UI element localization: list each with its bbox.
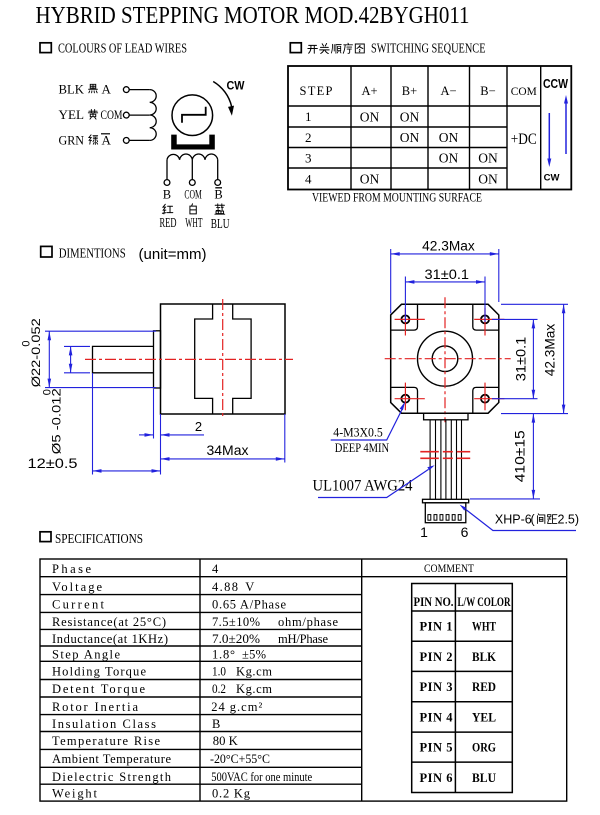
svg-text:PIN 6: PIN 6: [420, 771, 453, 785]
header COM: [511, 84, 537, 98]
connector housing XHP-6: [425, 503, 466, 523]
svg-text:COMMENT: COMMENT: [424, 561, 475, 575]
label B: [163, 188, 171, 202]
svg-text:SPECIFICATIONS: SPECIFICATIONS: [55, 532, 143, 547]
pin number 1: [420, 524, 428, 540]
svg-text:0.2: 0.2: [212, 682, 226, 696]
callout UL1007 AWG24 text: [313, 478, 413, 495]
svg-text:B−: B−: [480, 84, 495, 98]
dia5 dimension line: [69, 346, 73, 372]
stator bracket (thick U): [171, 135, 215, 150]
dim 2 label: [195, 419, 202, 434]
CW curved arrow: [213, 82, 234, 116]
svg-text:Resistance(at 25°C): Resistance(at 25°C): [52, 615, 166, 629]
svg-text:ON: ON: [360, 110, 380, 125]
mounting hole bottom-left: [401, 395, 409, 403]
svg-text:Kg.cm: Kg.cm: [236, 682, 272, 696]
section checkbox: dimentions: [41, 246, 52, 257]
boss width extension line: [153, 389, 155, 439]
svg-text:1: 1: [305, 109, 312, 124]
svg-text:PIN 1: PIN 1: [420, 620, 453, 634]
svg-text:WHT: WHT: [185, 215, 203, 230]
header A+: [361, 84, 377, 98]
svg-text:12±0.5: 12±0.5: [28, 456, 78, 471]
svg-text:CW: CW: [227, 79, 246, 93]
mounting hole bottom-right: [481, 395, 489, 403]
callout leader to connector: [460, 505, 576, 531]
svg-text:PIN NO.: PIN NO.: [414, 595, 454, 609]
header A-: [440, 84, 456, 98]
svg-text:Holding Torque: Holding Torque: [52, 664, 146, 678]
svg-text:7.0±20%: 7.0±20%: [212, 632, 260, 646]
svg-text:B: B: [163, 188, 171, 202]
wire A to coil: [129, 89, 150, 91]
winding A (vertical coil, 4 loops): [150, 90, 157, 141]
section checkbox: specifications: [40, 532, 51, 542]
wire COM-B down: [191, 160, 193, 180]
svg-text:A: A: [102, 132, 112, 147]
svg-text:-20°C+55°C: -20°C+55°C: [210, 752, 270, 766]
motor flange outline (chamfered square): [391, 304, 499, 413]
connector cap: [423, 499, 469, 503]
svg-text:Temperature Rise: Temperature Rise: [52, 734, 160, 748]
svg-text:CCW: CCW: [543, 77, 568, 91]
svg-text:CW: CW: [544, 173, 560, 184]
svg-text:Ø5 -0.012: Ø5 -0.012: [49, 388, 63, 454]
svg-text:ON: ON: [400, 130, 420, 145]
shaft length extension lines: [93, 373, 161, 475]
31 top dimension line: [405, 280, 485, 284]
svg-text:3: 3: [305, 151, 312, 166]
svg-text:PIN 2: PIN 2: [420, 650, 453, 664]
svg-text:Inductance(at 1KHz): Inductance(at 1KHz): [52, 632, 168, 646]
section title CJK: 开关顺序图: [308, 43, 364, 53]
42.3Max top dimension line: [391, 252, 499, 256]
svg-text:0.65 A/Phase: 0.65 A/Phase: [212, 598, 286, 612]
svg-text:24 g.cm²: 24 g.cm²: [211, 700, 262, 714]
svg-text:STEP: STEP: [300, 84, 333, 98]
svg-text:ORG: ORG: [472, 741, 496, 755]
step numbers: [305, 109, 312, 187]
svg-text:PIN 5: PIN 5: [420, 741, 453, 755]
svg-text:2.5): 2.5): [558, 513, 580, 527]
label 红: [162, 204, 172, 214]
rotor step symbol: [182, 107, 206, 123]
svg-text:ON: ON: [439, 130, 459, 145]
svg-text:0: 0: [21, 340, 33, 346]
svg-text:L/W COLOR: L/W COLOR: [458, 595, 512, 609]
callout XHP-6 text: [495, 513, 579, 527]
label GRN 绿 A-bar: [59, 132, 112, 147]
shaft bore circle: [432, 346, 458, 372]
winding B (horizontal coil, 4 loops): [167, 154, 218, 160]
42.3Max right label (rotated): [543, 323, 558, 376]
svg-text:ON: ON: [478, 172, 498, 187]
svg-text:YEL: YEL: [472, 710, 496, 724]
svg-text:0.2 Kg: 0.2 Kg: [212, 787, 251, 801]
svg-text:RED: RED: [160, 215, 177, 230]
svg-text:±5%: ±5%: [242, 647, 266, 661]
terminal B: [164, 180, 170, 186]
svg-text:mH/Phase: mH/Phase: [278, 632, 328, 646]
dia5 tolerance label: [41, 388, 63, 454]
dia22 dimension line: [48, 331, 52, 387]
terminal A-bar (GRN): [123, 138, 129, 144]
svg-text:BLU: BLU: [211, 216, 230, 231]
label COM (bottom): [184, 188, 202, 202]
svg-text:7.5±10%: 7.5±10%: [212, 615, 260, 629]
svg-text:COLOURS OF LEAD WIRES: COLOURS OF LEAD WIRES: [58, 41, 187, 56]
svg-text:1.0: 1.0: [212, 664, 226, 678]
corner pad bottom-left: [391, 387, 417, 413]
table grid: [288, 66, 571, 190]
svg-text:31±0.1: 31±0.1: [514, 337, 529, 382]
wire COM to coil: [129, 114, 150, 116]
callout DEEP 4MIN text: [335, 440, 390, 455]
svg-text:2: 2: [195, 419, 202, 434]
cable centerline ticks: [420, 452, 470, 459]
34Max extension line right: [284, 414, 286, 463]
31 right extension lines: [492, 319, 538, 398]
svg-text:Phase: Phase: [52, 562, 91, 576]
wire B down: [166, 160, 168, 180]
lead wire bundle: [430, 420, 461, 500]
svg-text:42.3Max: 42.3Max: [543, 323, 558, 376]
+DC label: [511, 131, 537, 148]
mounting hole top-left: [401, 315, 409, 323]
410 extension line bottom: [470, 498, 540, 500]
corner pad top-right: [473, 304, 499, 330]
spec table grid: [40, 559, 567, 801]
42.3Max top extension lines: [391, 249, 499, 313]
label 白: [190, 204, 196, 214]
rotor circle: [172, 95, 213, 136]
svg-text:ON: ON: [360, 172, 380, 187]
ON row2: [400, 130, 459, 145]
motor body outline (side view): [161, 304, 286, 414]
svg-text:Ø22-0.052: Ø22-0.052: [29, 318, 43, 387]
svg-text:ON: ON: [478, 151, 498, 166]
label WHT: [185, 215, 203, 230]
ON row3: [439, 151, 498, 166]
svg-text:VIEWED FROM MOUNTING SURFACE: VIEWED FROM MOUNTING SURFACE: [312, 191, 482, 205]
svg-text:BLU: BLU: [472, 771, 496, 785]
svg-text:6: 6: [461, 524, 469, 540]
wire exit flange: [424, 413, 468, 420]
section checkbox: colours of lead wires: [40, 43, 51, 53]
svg-text:0: 0: [41, 389, 53, 395]
callout 4-M3X0.5 text: [333, 425, 383, 440]
mounting hole top-right: [481, 315, 489, 323]
svg-text:500VAC for one minute: 500VAC for one minute: [211, 770, 312, 784]
svg-text:B: B: [212, 717, 220, 731]
label 蓝: [215, 204, 225, 214]
title: [36, 2, 470, 29]
wire B-bar down: [217, 160, 219, 180]
svg-text:Ambient Temperature: Ambient Temperature: [52, 752, 171, 766]
svg-text:4-M3X0.5: 4-M3X0.5: [333, 425, 383, 440]
svg-text:PIN 4: PIN 4: [420, 710, 454, 724]
CCW direction arrow (up): [564, 95, 568, 154]
svg-text:B+: B+: [402, 84, 417, 98]
dia5 extension lines: [64, 346, 90, 372]
terminal COM-B: [189, 180, 195, 186]
front view centerlines: [385, 297, 511, 422]
spec values column: [210, 562, 338, 801]
terminal B-bar: [215, 180, 221, 186]
svg-text:Kg.cm: Kg.cm: [236, 664, 272, 678]
svg-text:A−: A−: [440, 84, 456, 98]
svg-text:34Max: 34Max: [207, 443, 249, 458]
label B-bar: [214, 188, 222, 202]
svg-text:ON: ON: [400, 110, 420, 125]
section title: DIMENTIONS: [59, 246, 126, 261]
svg-text:DEEP 4MIN: DEEP 4MIN: [335, 440, 390, 455]
svg-text:4: 4: [212, 562, 219, 576]
svg-text:+DC: +DC: [511, 131, 537, 148]
side view inner profile: [195, 304, 251, 414]
svg-text:SWITCHING SEQUENCE: SWITCHING SEQUENCE: [371, 41, 486, 56]
svg-text:UL1007 AWG24: UL1007 AWG24: [313, 478, 413, 495]
wire A-bar to coil: [129, 139, 150, 141]
side view horizontal centerline: [85, 358, 293, 360]
31 top extension lines: [405, 277, 485, 323]
label YEL 黄 COM: [59, 107, 123, 122]
pin wire colors: [472, 620, 497, 785]
dia22 extension lines: [45, 331, 156, 387]
header B-: [480, 84, 495, 98]
svg-text:XHP-6: XHP-6: [495, 513, 532, 527]
caption: viewed from mounting surface: [312, 191, 482, 205]
shaft: [93, 346, 154, 372]
410+-15 dimension line: [532, 414, 536, 499]
ON row1: [360, 110, 420, 125]
section title: COLOURS OF LEAD WIRES: [58, 41, 187, 56]
42.3Max top label: [422, 239, 475, 254]
pin color table grid: [412, 584, 513, 793]
connector pin slots: [428, 515, 461, 521]
svg-text:BLK: BLK: [59, 82, 85, 97]
svg-text:YEL: YEL: [59, 107, 85, 122]
unit label: (unit=mm): [139, 246, 207, 263]
svg-text:A: A: [102, 82, 112, 97]
svg-text:BLK: BLK: [472, 650, 496, 664]
CW arrow text: [227, 79, 246, 93]
section title: SWITCHING SEQUENCE: [371, 41, 486, 56]
svg-text:4.88: 4.88: [212, 580, 238, 594]
svg-text:A+: A+: [361, 84, 377, 98]
34Max dimension line: [161, 457, 285, 461]
label BLU: [211, 216, 230, 231]
svg-text:410±15: 410±15: [513, 430, 528, 482]
front boss (pilot): [154, 331, 161, 388]
dim 2 arrows and line: [139, 433, 204, 437]
dia22 tolerance label: [21, 318, 44, 387]
CW direction arrow (down): [547, 113, 551, 167]
svg-text:31±0.1: 31±0.1: [425, 267, 470, 282]
CCW label: [543, 77, 568, 91]
side view vertical centerline: [222, 299, 224, 419]
svg-text:Weight: Weight: [52, 787, 98, 801]
31 right label (rotated): [514, 337, 529, 382]
svg-text:80 K: 80 K: [213, 734, 238, 748]
COMMENT header: [424, 561, 475, 575]
410+-15 label (rotated): [513, 430, 528, 482]
svg-text:ON: ON: [439, 151, 459, 166]
svg-text:Current: Current: [52, 598, 105, 612]
CW label (bottom): [544, 173, 560, 184]
section checkbox: switching sequence: [290, 43, 301, 53]
terminal COM (YEL): [123, 112, 129, 118]
ON row4: [360, 172, 498, 187]
34Max label: [207, 443, 249, 458]
svg-text:Insulation Class: Insulation Class: [52, 717, 156, 731]
svg-text:RED: RED: [472, 680, 496, 694]
section title: SPECIFICATIONS: [55, 532, 143, 547]
hole centerline crosses: [395, 308, 505, 411]
header STEP: [300, 84, 333, 98]
12+-0.5 label: [28, 456, 78, 471]
spec labels column: [52, 562, 172, 801]
svg-text:ohm/phase: ohm/phase: [278, 615, 338, 629]
corner pad top-left: [391, 304, 417, 330]
terminal A (BLK): [123, 87, 129, 93]
svg-text:1.8°: 1.8°: [212, 647, 235, 661]
svg-text:1: 1: [420, 524, 428, 540]
label RED: [160, 215, 177, 230]
svg-text:B: B: [214, 188, 222, 202]
svg-text:HYBRID STEPPING MOTOR MOD.42BY: HYBRID STEPPING MOTOR MOD.42BYGH011: [36, 2, 470, 29]
12+-0.5 dimension line: [93, 469, 161, 473]
pin number 6: [461, 524, 469, 540]
svg-text:Step Angle: Step Angle: [52, 647, 120, 661]
svg-text:DIMENTIONS: DIMENTIONS: [59, 246, 126, 261]
svg-text:WHT: WHT: [472, 620, 497, 634]
callout leader to wire bundle: [318, 465, 435, 497]
svg-text:GRN: GRN: [59, 132, 85, 147]
svg-text:(unit=mm): (unit=mm): [139, 246, 207, 263]
42.3Max right dimension line: [562, 304, 566, 413]
callout leader to bottom-left hole: [331, 401, 406, 440]
svg-text:4: 4: [305, 172, 312, 187]
svg-text:Detent Torque: Detent Torque: [52, 682, 145, 696]
pin numbers: [420, 620, 454, 785]
svg-text:COM: COM: [511, 84, 537, 98]
31 top label: [425, 267, 470, 282]
header B+: [402, 84, 417, 98]
svg-text:42.3Max: 42.3Max: [422, 239, 475, 254]
svg-text:COM: COM: [101, 107, 123, 122]
svg-text:Dielectric Strength: Dielectric Strength: [52, 770, 172, 784]
svg-text:PIN 3: PIN 3: [420, 680, 453, 694]
31 right dimension line: [532, 319, 536, 398]
svg-text:2: 2: [305, 130, 312, 145]
42.3Max right extension lines: [501, 304, 568, 413]
pilot circle: [418, 331, 473, 386]
label BLK 黑 A: [59, 82, 112, 97]
corner pad bottom-right: [473, 387, 499, 413]
svg-text:V: V: [245, 580, 254, 594]
pin table headers: [414, 595, 512, 609]
svg-text:COM: COM: [184, 188, 202, 202]
